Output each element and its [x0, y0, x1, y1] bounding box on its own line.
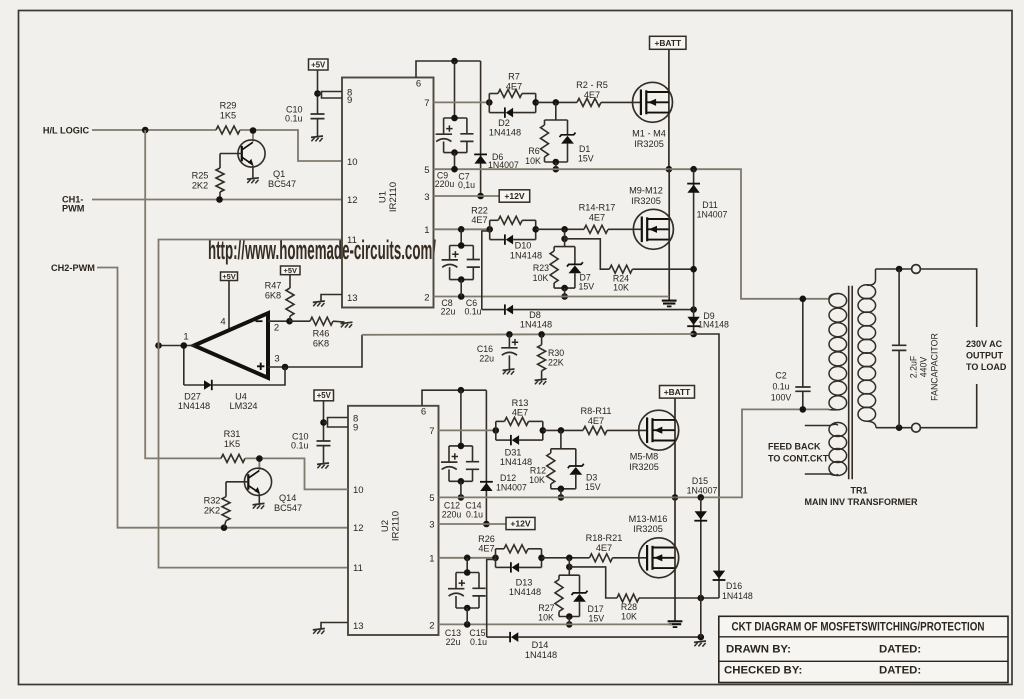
svg-text:4E7: 4E7 [512, 407, 528, 417]
node R13 left [493, 427, 500, 434]
svg-text:0.1u: 0.1u [470, 637, 487, 647]
svg-text:R18-R21: R18-R21 [586, 533, 623, 543]
svg-text:13: 13 [347, 293, 358, 304]
svg-text:22K: 22K [548, 358, 564, 368]
svg-text:R7: R7 [508, 72, 520, 82]
capacitor C6 [464, 246, 481, 317]
resistor R32 [204, 482, 230, 528]
svg-text:1N4148: 1N4148 [500, 457, 532, 467]
svg-text:22u: 22u [479, 353, 494, 363]
transformer TR1 primary coil [829, 294, 847, 410]
wire D8 vertical [482, 231, 490, 310]
label DATED 1 [879, 643, 921, 655]
wire R27 bottom to COM2 bus [568, 617, 570, 625]
svg-text:M1 - M4: M1 - M4 [632, 129, 666, 139]
node M1 source on VS bus [666, 166, 673, 173]
svg-text:D1: D1 [579, 144, 590, 154]
node D8 D9 junction [690, 306, 697, 313]
svg-text:22u: 22u [446, 637, 461, 647]
node D14 D15 junction [698, 634, 705, 641]
diode D3 zener [568, 449, 601, 492]
wire op-amp pin4 [220, 281, 229, 331]
resistor R23 parallel box [533, 239, 575, 288]
svg-text:1N4148: 1N4148 [520, 320, 552, 330]
wire R8 to M5 gate [607, 429, 647, 431]
wire rail down to C9 C7 [454, 61, 456, 118]
diode D9 [687, 310, 729, 334]
svg-text:DRAWN BY:: DRAWN BY: [726, 643, 791, 655]
wire R29 to Q1 collector and U1 pin10 [240, 130, 342, 161]
wire output bottom bracket [920, 384, 976, 428]
node pin3 junction [282, 364, 289, 371]
svg-text:15V: 15V [578, 154, 594, 164]
label U4 LM324 [229, 391, 257, 411]
wire C12 to VS2 bus [460, 481, 462, 497]
resistor R22 parallel box [471, 205, 536, 239]
resistor R14-R17 [579, 203, 616, 234]
wire H/L logic to R29 [92, 129, 216, 131]
svg-text:10: 10 [347, 157, 358, 168]
resistor R12 parallel box [529, 430, 576, 488]
svg-text:IR2110: IR2110 [391, 511, 402, 541]
svg-text:2K2: 2K2 [204, 505, 220, 515]
svg-text:4E7: 4E7 [588, 416, 604, 426]
wire sense line [362, 333, 694, 336]
svg-text:5: 5 [424, 165, 429, 176]
label DRAWN BY [726, 643, 791, 655]
svg-text:1N4148: 1N4148 [525, 650, 557, 660]
svg-text:R12: R12 [530, 465, 546, 475]
wire R24 to D11 line [632, 268, 693, 270]
svg-text:4E7: 4E7 [584, 90, 600, 100]
wire C13 to COM2 bus [466, 608, 468, 624]
node R7 right [532, 99, 539, 106]
svg-text:10K: 10K [529, 475, 545, 485]
node H/L LOGIC label [43, 125, 90, 135]
node R26 left [492, 555, 499, 562]
wire U2 pin5 VS2 bus to transformer [439, 409, 830, 497]
wire U2 pin2 COM bus [439, 623, 673, 625]
svg-text:3: 3 [429, 520, 434, 531]
wire U2 pin7 to R13 [439, 429, 496, 431]
wire +BATT to M1 drain [668, 49, 670, 169]
svg-text:+BATT: +BATT [654, 38, 681, 48]
svg-text:TO LOAD: TO LOAD [966, 362, 1007, 372]
power +5V box U2 [314, 390, 334, 401]
svg-text:1N4148: 1N4148 [509, 587, 541, 597]
node C2 bottom [800, 406, 807, 413]
node D6 +12V junction [477, 193, 484, 200]
svg-text:+5V: +5V [222, 272, 235, 281]
node junction H/L [142, 127, 149, 134]
svg-text:2: 2 [424, 292, 429, 303]
svg-text:R13: R13 [512, 398, 529, 408]
capacitor C15 [469, 573, 487, 647]
svg-text:1N4007: 1N4007 [697, 210, 728, 220]
wire U2 pin6 rail [422, 390, 486, 406]
label FEED BACK [768, 441, 829, 463]
resistor R27 parallel box [538, 567, 579, 623]
resistor R8-R11 [581, 406, 612, 435]
svg-text:22u: 22u [441, 307, 456, 317]
resistor R18-R21 [586, 533, 623, 562]
node C9 C7 ties [451, 115, 458, 156]
svg-text:440V: 440V [919, 357, 929, 378]
title block table [719, 616, 1008, 682]
svg-text:1: 1 [424, 225, 429, 236]
node R25 bottom junction [216, 196, 223, 203]
svg-text:11: 11 [353, 563, 363, 574]
wire +5V to C10 [317, 70, 319, 114]
svg-text:IR2110: IR2110 [388, 182, 399, 212]
node R23 tap [561, 226, 568, 233]
svg-text:FANCAPACITOR: FANCAPACITOR [930, 333, 940, 401]
svg-text:R46: R46 [313, 328, 330, 338]
node R22 left [486, 226, 493, 233]
wire U2 pin1 to R26 [439, 557, 496, 559]
wire R2-R5 to M1 gate [601, 101, 641, 103]
diode D6 [474, 61, 519, 196]
svg-text:9: 9 [353, 423, 358, 434]
svg-text:10K: 10K [525, 156, 541, 166]
resistor R6 parallel box [525, 102, 567, 166]
node VS2 D15 junction [698, 494, 705, 501]
wire R23 bottom to COM bus [564, 288, 566, 296]
transformer feedback coil [805, 423, 847, 476]
svg-text:CHECKED BY:: CHECKED BY: [724, 665, 802, 677]
svg-text:220u: 220u [442, 510, 462, 520]
label 230V AC OUTPUT TO LOAD [966, 339, 1007, 372]
diode D17 zener [572, 575, 605, 623]
svg-text:10K: 10K [538, 613, 554, 623]
node M5 source on VS2 bus [672, 494, 679, 501]
wire output to U2 pin11 [159, 346, 349, 568]
capacitor C13 [445, 558, 479, 647]
svg-text:6K8: 6K8 [265, 290, 281, 300]
ground R30 [535, 379, 547, 385]
wire CH1-PWM to U1 pin12 [92, 199, 342, 201]
svg-text:R32: R32 [204, 495, 221, 505]
svg-text:4E7: 4E7 [471, 215, 487, 225]
svg-text:Q1: Q1 [273, 169, 285, 179]
resistor R29 [216, 101, 240, 134]
svg-text:DATED:: DATED: [879, 665, 921, 677]
svg-text:1N4148: 1N4148 [489, 128, 521, 138]
svg-text:15V: 15V [589, 613, 605, 623]
capacitor C2 [771, 299, 811, 410]
svg-text:R47: R47 [265, 280, 282, 290]
transistor M5-M8 mosfet [629, 410, 679, 472]
wire R14 to M9 gate [608, 228, 641, 230]
node R30 tap [538, 331, 545, 338]
svg-text:H/L LOGIC: H/L LOGIC [43, 125, 90, 135]
svg-text:R31: R31 [224, 429, 241, 439]
svg-text:2: 2 [274, 323, 279, 334]
capacitor C8 [441, 229, 474, 316]
diode D12 [480, 390, 527, 524]
node C12 ties [458, 443, 465, 501]
wire R22 to R14 [536, 228, 584, 230]
diode D27 [178, 346, 285, 412]
svg-text:10K: 10K [621, 611, 637, 621]
svg-text:1N4007: 1N4007 [496, 482, 527, 492]
ground U1 pin13 [313, 301, 325, 307]
svg-text:R23: R23 [533, 263, 549, 273]
wire jog to R24 [565, 229, 610, 269]
svg-text:15V: 15V [579, 281, 595, 291]
svg-text:OUTPUT: OUTPUT [966, 351, 1004, 361]
wire U1 pin1 to R22 [434, 228, 490, 230]
svg-text:1K5: 1K5 [224, 439, 240, 449]
wire R7 to R2-R5 [536, 101, 577, 103]
svg-text:1: 1 [429, 553, 434, 564]
svg-text:4: 4 [220, 316, 225, 327]
wire R26 to R18 [542, 557, 590, 559]
svg-text:C2: C2 [775, 370, 786, 380]
wire R13 to R8 [543, 429, 583, 431]
capacitor C9 [435, 118, 467, 189]
svg-text:10K: 10K [613, 283, 629, 293]
svg-text:2.2uF: 2.2uF [909, 355, 919, 378]
svg-text:D14: D14 [532, 640, 549, 650]
node VS D11 junction [690, 166, 697, 173]
transformer TR1 secondary coil [858, 269, 876, 428]
svg-text:220u: 220u [435, 179, 455, 189]
resistor R24 [609, 265, 632, 292]
resistor R7 parallel box [489, 72, 535, 113]
resistor R28 [617, 594, 639, 621]
svg-text:R8-R11: R8-R11 [581, 406, 612, 416]
node D11 R24 junction [690, 266, 697, 273]
node CH2-PWM label [51, 263, 95, 273]
resistor R2 - R5 [576, 80, 608, 106]
svg-text:DATED:: DATED: [879, 643, 921, 655]
wire secondary top to terminal [876, 268, 912, 270]
capacitor C10 U2 [291, 431, 331, 463]
wire U1 pins 8 9 stub [318, 92, 343, 99]
node R13 right [540, 427, 547, 434]
resistor R26 parallel box [478, 534, 541, 568]
svg-text:0.1u: 0.1u [464, 307, 481, 317]
watermark homemade-circuits [208, 235, 436, 265]
diode D31 [496, 435, 543, 467]
node R28 jog [566, 564, 573, 571]
svg-text:R26: R26 [478, 534, 495, 544]
svg-text:+5V: +5V [311, 60, 326, 69]
svg-text:0,1u: 0,1u [458, 180, 475, 190]
node D9 bottom junction [690, 331, 697, 338]
wire R6 bottom to bus [555, 162, 557, 169]
transistor Q1 [238, 140, 296, 189]
node Q14 collector junction [256, 455, 263, 462]
node CH1-PWM label [62, 194, 85, 213]
wire C8 to COM bus [460, 280, 462, 297]
diode D10 [490, 234, 542, 260]
resistor R13 parallel box [496, 398, 543, 440]
svg-text:4E7: 4E7 [589, 213, 605, 223]
svg-text:BC547: BC547 [268, 179, 296, 189]
svg-text:1K5: 1K5 [220, 111, 236, 121]
power +5V box U1 [309, 59, 329, 70]
wire C9 to VS bus [454, 153, 456, 170]
node C13 ties [464, 569, 471, 628]
resistor R31 [221, 429, 245, 462]
svg-text:4E7: 4E7 [506, 82, 522, 92]
transistor M1 - M4 mosfet [632, 82, 672, 149]
resistor R47 [265, 275, 294, 322]
node R7 left [486, 99, 493, 106]
svg-text:FEED BACK: FEED BACK [768, 441, 821, 451]
op-amp U1c triangle U4 [194, 313, 268, 378]
wire Q1 emitter [252, 165, 254, 178]
wire H/L vertical to R31 [145, 130, 221, 458]
wire output to U1 pin11 [159, 240, 343, 346]
diode D7 zener [567, 247, 594, 292]
svg-text:IR3205: IR3205 [634, 139, 664, 149]
power +BATT box M5 [660, 386, 695, 399]
node output junctions [155, 342, 187, 349]
resistor R25 [192, 154, 224, 200]
node pin2 junction [286, 318, 293, 325]
capacitor C16 [477, 334, 518, 369]
wire Q1 base [220, 153, 242, 155]
capacitor C10 U1 [285, 104, 325, 136]
svg-text:R25: R25 [192, 171, 209, 181]
node C8 ties [458, 242, 465, 300]
capacitor C14 [465, 446, 483, 520]
svg-text:R29: R29 [220, 101, 237, 111]
svg-text:BC547: BC547 [274, 503, 302, 513]
svg-text:15V: 15V [585, 482, 601, 492]
label title CKT DIAGRAM [732, 621, 985, 634]
power +5V box op-amp pin4 [221, 272, 238, 281]
node R22 right [532, 226, 539, 233]
wire rail down to C12 [460, 390, 462, 446]
svg-text:4E7: 4E7 [478, 543, 494, 553]
node D12 +12V junction [483, 521, 490, 528]
svg-text:U4: U4 [235, 391, 247, 401]
svg-text:R14-R17: R14-R17 [579, 203, 616, 213]
svg-text:11: 11 [347, 235, 357, 246]
svg-text:C16: C16 [477, 344, 493, 354]
svg-text:100V: 100V [771, 392, 792, 402]
wire U2 pins 8 9 stub [324, 418, 349, 428]
ground C16 [503, 369, 515, 375]
svg-text:D2: D2 [498, 118, 510, 128]
node VS C9 junction [451, 166, 458, 173]
diode D2 [489, 107, 536, 137]
diode D11 [687, 169, 727, 309]
node C2 top [800, 296, 807, 303]
svg-text:D10: D10 [515, 241, 532, 251]
op-amp U1 IC box IR2110 #1 [342, 78, 434, 308]
node secondary bottom junction [896, 424, 903, 431]
wire U1 pin7 to R7 [434, 101, 490, 103]
svg-text:PWM: PWM [62, 203, 85, 213]
svg-text:M9-M12: M9-M12 [629, 185, 663, 195]
wire +BATT to M5 drain [674, 398, 676, 497]
label CHECKED BY [724, 665, 802, 677]
transistor M13-M16 mosfet [629, 514, 679, 578]
svg-text:9: 9 [347, 95, 352, 106]
wire secondary bottom to terminal [876, 427, 912, 429]
svg-text:2K2: 2K2 [192, 181, 208, 191]
label U1 pin numbers left [347, 88, 358, 305]
node C8 tap junction [458, 226, 465, 233]
wire M9 drain to VS bus [668, 169, 670, 300]
svg-text:+BATT: +BATT [664, 387, 691, 397]
svg-text:10K: 10K [533, 273, 549, 283]
svg-text:6: 6 [421, 407, 426, 418]
svg-text:6K8: 6K8 [313, 338, 329, 348]
label TR1 [805, 486, 918, 508]
node R27 tap [566, 555, 573, 562]
svg-text:230V AC: 230V AC [966, 339, 1003, 349]
svg-text:+5V: +5V [317, 391, 332, 400]
wire U2 pin3 +12V [439, 523, 507, 525]
svg-text:3: 3 [274, 353, 279, 364]
diode D14 [487, 632, 701, 660]
svg-text:R2 - R5: R2 - R5 [576, 80, 608, 90]
ground Q1 emitter [247, 178, 259, 184]
svg-text:TO CONT.CKT: TO CONT.CKT [768, 453, 829, 463]
transformer core [849, 286, 853, 479]
ground R46 [341, 322, 353, 328]
svg-text:0.1u: 0.1u [285, 114, 303, 124]
svg-text:1N4148: 1N4148 [698, 319, 729, 329]
node R28 D15 junction [698, 595, 705, 602]
node R26 right [538, 555, 545, 562]
resistor R30 [538, 334, 565, 379]
terminal circle top [912, 265, 921, 274]
wire op-amp output pin1 [159, 331, 195, 345]
node R12 bottom [558, 486, 565, 501]
wire +5V to C10b [323, 401, 325, 441]
wire Q14 emitter [258, 494, 260, 504]
svg-text:1N4148: 1N4148 [722, 591, 753, 601]
node R12 tap [558, 427, 565, 434]
wire R31 to Q14 collector U2 pin10 [245, 458, 348, 489]
svg-text:6: 6 [416, 79, 421, 90]
wire M13 drain source vertical [674, 497, 676, 620]
svg-text:D16: D16 [726, 581, 742, 591]
ground U2 pin13 [313, 629, 325, 635]
wire Q14 base [226, 481, 248, 483]
diode D8 [482, 304, 694, 329]
svg-text:13: 13 [353, 621, 364, 632]
svg-text:0.1u: 0.1u [772, 381, 789, 391]
node rail C9 junction [451, 58, 458, 65]
node R6 tap [553, 99, 560, 106]
capacitor fan 2.2uF [892, 269, 940, 428]
svg-text:1N4007: 1N4007 [687, 485, 718, 495]
transistor M9-M12 mosfet [629, 185, 673, 249]
svg-text:MAIN INV TRANSFORMER: MAIN INV TRANSFORMER [805, 497, 918, 507]
node R27 bottom [566, 613, 573, 628]
label DATED 2 [879, 665, 921, 677]
wire U1 pin6 rail [416, 61, 481, 78]
node R23 bottom [561, 285, 568, 300]
wire output top bracket [920, 269, 976, 327]
svg-text:IR3205: IR3205 [633, 524, 663, 534]
svg-text:7: 7 [424, 98, 429, 109]
svg-text:CKT DIAGRAM OF MOSFETSWITCHING: CKT DIAGRAM OF MOSFETSWITCHING/PROTECTIO… [732, 621, 985, 634]
node +5V C10b junction [320, 419, 327, 426]
power +5V box R47 [281, 266, 301, 275]
capacitor C7 [458, 118, 475, 190]
svg-text:1N4148: 1N4148 [510, 250, 542, 260]
svg-text:4E7: 4E7 [596, 543, 612, 553]
